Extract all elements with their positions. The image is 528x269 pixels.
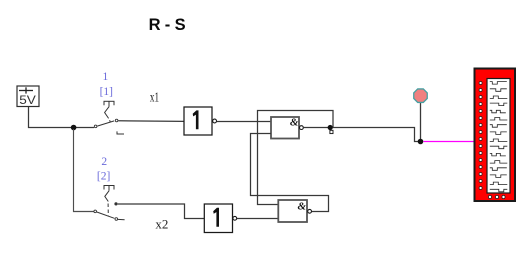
wire nand U2 output to probe node <box>304 128 420 142</box>
label x2 <box>155 217 168 232</box>
svg-text:[2]: [2] <box>97 171 110 183</box>
svg-text:2: 2 <box>101 156 107 168</box>
nand U3 <box>278 200 311 222</box>
svg-text:x1: x1 <box>150 91 159 105</box>
node probe junction <box>418 139 424 145</box>
wire switch J1 to inverter U1 <box>118 120 184 123</box>
switch J2 <box>94 186 125 221</box>
node junction battery bus <box>71 125 77 131</box>
svg-text:&: & <box>297 200 306 212</box>
inverter U4 <box>204 204 236 233</box>
label x1 <box>150 91 159 105</box>
wire feedback U3 output to nand U2 input2 <box>251 134 329 212</box>
wire magenta to logic analyzer <box>423 141 475 143</box>
svg-text:5V: 5V <box>19 93 36 107</box>
svg-text:R - S: R - S <box>149 16 186 34</box>
nand U2 <box>271 116 303 138</box>
svg-text:1: 1 <box>103 71 109 83</box>
switch J1 label [1] <box>100 86 113 98</box>
wire inverter U1 to nand U2 input1 <box>217 121 271 123</box>
probe X1 <box>414 89 428 140</box>
switch J2 label [2] <box>97 171 110 183</box>
logic analyzer XLA1 <box>475 69 516 202</box>
wire bus vertical to switch 2 <box>74 129 94 212</box>
battery V1 <box>17 86 39 107</box>
net number marker at Q <box>330 130 333 133</box>
inverter U1 <box>184 107 217 135</box>
switch J1 <box>94 101 124 134</box>
wire switch J2 to inverter U4 <box>118 204 205 219</box>
wire battery to bus <box>29 107 95 128</box>
switch J2 label 2 <box>101 156 107 168</box>
switch J1 label 1 <box>103 71 109 83</box>
wire feedback Q to nand U3 input1 <box>258 111 334 205</box>
wire inverter U4 to nand U3 input2 <box>237 218 278 220</box>
svg-text:x2: x2 <box>155 217 168 232</box>
svg-text:&: & <box>290 116 299 128</box>
svg-text:[1]: [1] <box>100 86 113 98</box>
node Q junction <box>328 125 333 130</box>
title R - S <box>149 16 186 34</box>
